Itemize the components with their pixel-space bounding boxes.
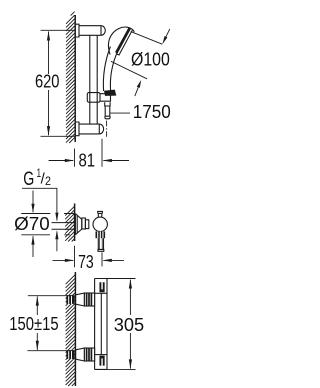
- extension line 73 left (wall axis): [74, 246, 76, 267]
- dim 81 right arrow: [103, 160, 129, 162]
- extension line 81 right (hose axis): [101, 139, 103, 167]
- union 2: ribbed nut: [84, 348, 94, 361]
- arrow down 305: [129, 359, 132, 368]
- dim line 305: [129, 280, 131, 369]
- hose tube: [105, 106, 110, 116]
- union 1: escutcheon cone (flared): [76, 293, 85, 306]
- wall line (top view): [74, 15, 76, 142]
- O70 extension line bottom: [21, 234, 70, 236]
- dim 73 left arrow: [53, 259, 74, 261]
- top bracket arm: [79, 26, 101, 36]
- G 1/2 leader line: [22, 188, 57, 220]
- union 1: ribbed nut: [84, 293, 94, 306]
- union 2: wall nut: [66, 350, 74, 359]
- extension line 305 bottom: [107, 368, 136, 370]
- union 2: escutcheon cone (flared): [76, 348, 85, 361]
- G 1/2 arrow down to stub: [55, 213, 58, 222]
- hose collar: [105, 102, 110, 106]
- hose bottom cap: [105, 116, 110, 119]
- wall line (bottom view): [74, 272, 76, 386]
- nipple on top of ball: [98, 211, 103, 217]
- ball joint: [93, 217, 107, 231]
- arrow down 620: [47, 126, 50, 136]
- extension line 81 left (wall): [74, 149, 76, 167]
- svg-text:Ø100: Ø100: [131, 49, 170, 70]
- svg-text:620: 620: [35, 71, 60, 92]
- extension line top (620): [41, 29, 76, 31]
- wall hatching (middle view): [65, 207, 74, 242]
- ring 1: [82, 218, 86, 229]
- arrow up 305: [129, 279, 132, 288]
- wall line (middle view): [74, 204, 76, 242]
- svg-text:2: 2: [45, 174, 51, 188]
- extension line 73 (pipe axis): [101, 252, 103, 266]
- lock nut below ball: [96, 231, 106, 238]
- O70 bottom arrow: [32, 236, 34, 257]
- O70 extension line top: [21, 213, 75, 215]
- extension line 150 bottom: [27, 350, 72, 352]
- supply pipe stub behind wall: [52, 223, 75, 230]
- arrow down 150: [36, 341, 39, 350]
- svg-text:1750: 1750: [133, 101, 171, 122]
- dim 81 left arrow: [49, 160, 74, 162]
- svg-text:81: 81: [79, 150, 96, 171]
- thermostat body: [95, 279, 107, 370]
- svg-text:Ø70: Ø70: [14, 213, 50, 234]
- G 1/2 arrow up below stub: [55, 230, 58, 239]
- handle tube right outline: [110, 51, 118, 91]
- bottom bracket arm: [79, 124, 99, 134]
- escutcheon (middle view): [75, 214, 81, 235]
- svg-text:305: 305: [114, 314, 144, 335]
- dim 73 right arrow: [103, 259, 124, 261]
- arrow up 620: [47, 31, 50, 41]
- outlet pipe: [98, 238, 103, 249]
- arrow A (O100 upper): [162, 36, 167, 44]
- hose centerline dash-dot: [106, 121, 108, 137]
- svg-text:73: 73: [78, 251, 94, 272]
- svg-text:150±15: 150±15: [9, 313, 58, 334]
- wall hatching (bottom view): [66, 275, 75, 386]
- spray face stripe: [116, 28, 129, 53]
- spray face front rim: [116, 30, 132, 55]
- extension line A (O100): [131, 32, 162, 45]
- bottom wall bracket flange: [76, 122, 80, 136]
- union 2: port dark mark: [100, 356, 103, 366]
- extension line bottom (620): [41, 135, 76, 137]
- wall hatching (top view): [66, 12, 75, 143]
- union 1: port dark mark: [100, 282, 103, 292]
- top bracket cap: [101, 26, 105, 36]
- leader 1750: [110, 112, 130, 114]
- handle grip end (black cone in holder): [104, 90, 116, 96]
- ring 2: [85, 220, 88, 229]
- dimension line 620: [48, 32, 50, 136]
- extension line B (O100): [111, 61, 147, 79]
- top wall bracket flange: [76, 24, 80, 37]
- union 1: port edge on body: [95, 292, 107, 294]
- dim line 150: [36, 296, 38, 350]
- arrow up 150: [36, 296, 39, 305]
- glide holder ring on rail: [87, 93, 100, 103]
- rail (vertical bar): [90, 35, 97, 124]
- bottom bracket cap: [99, 124, 103, 134]
- union 2: port edge on body: [95, 354, 107, 356]
- union 1: wall nut: [66, 295, 74, 304]
- O70 top arrow: [32, 191, 34, 213]
- holder clamp: [100, 94, 111, 102]
- extension line 305 top: [102, 278, 136, 280]
- extension line 150 top: [28, 295, 72, 297]
- arrow B (O100 lower): [137, 80, 141, 88]
- svg-text:G: G: [23, 168, 34, 190]
- pipe bottom cap: [98, 249, 104, 251]
- handle tube left outline: [103, 47, 110, 92]
- shower head outline: [108, 27, 134, 55]
